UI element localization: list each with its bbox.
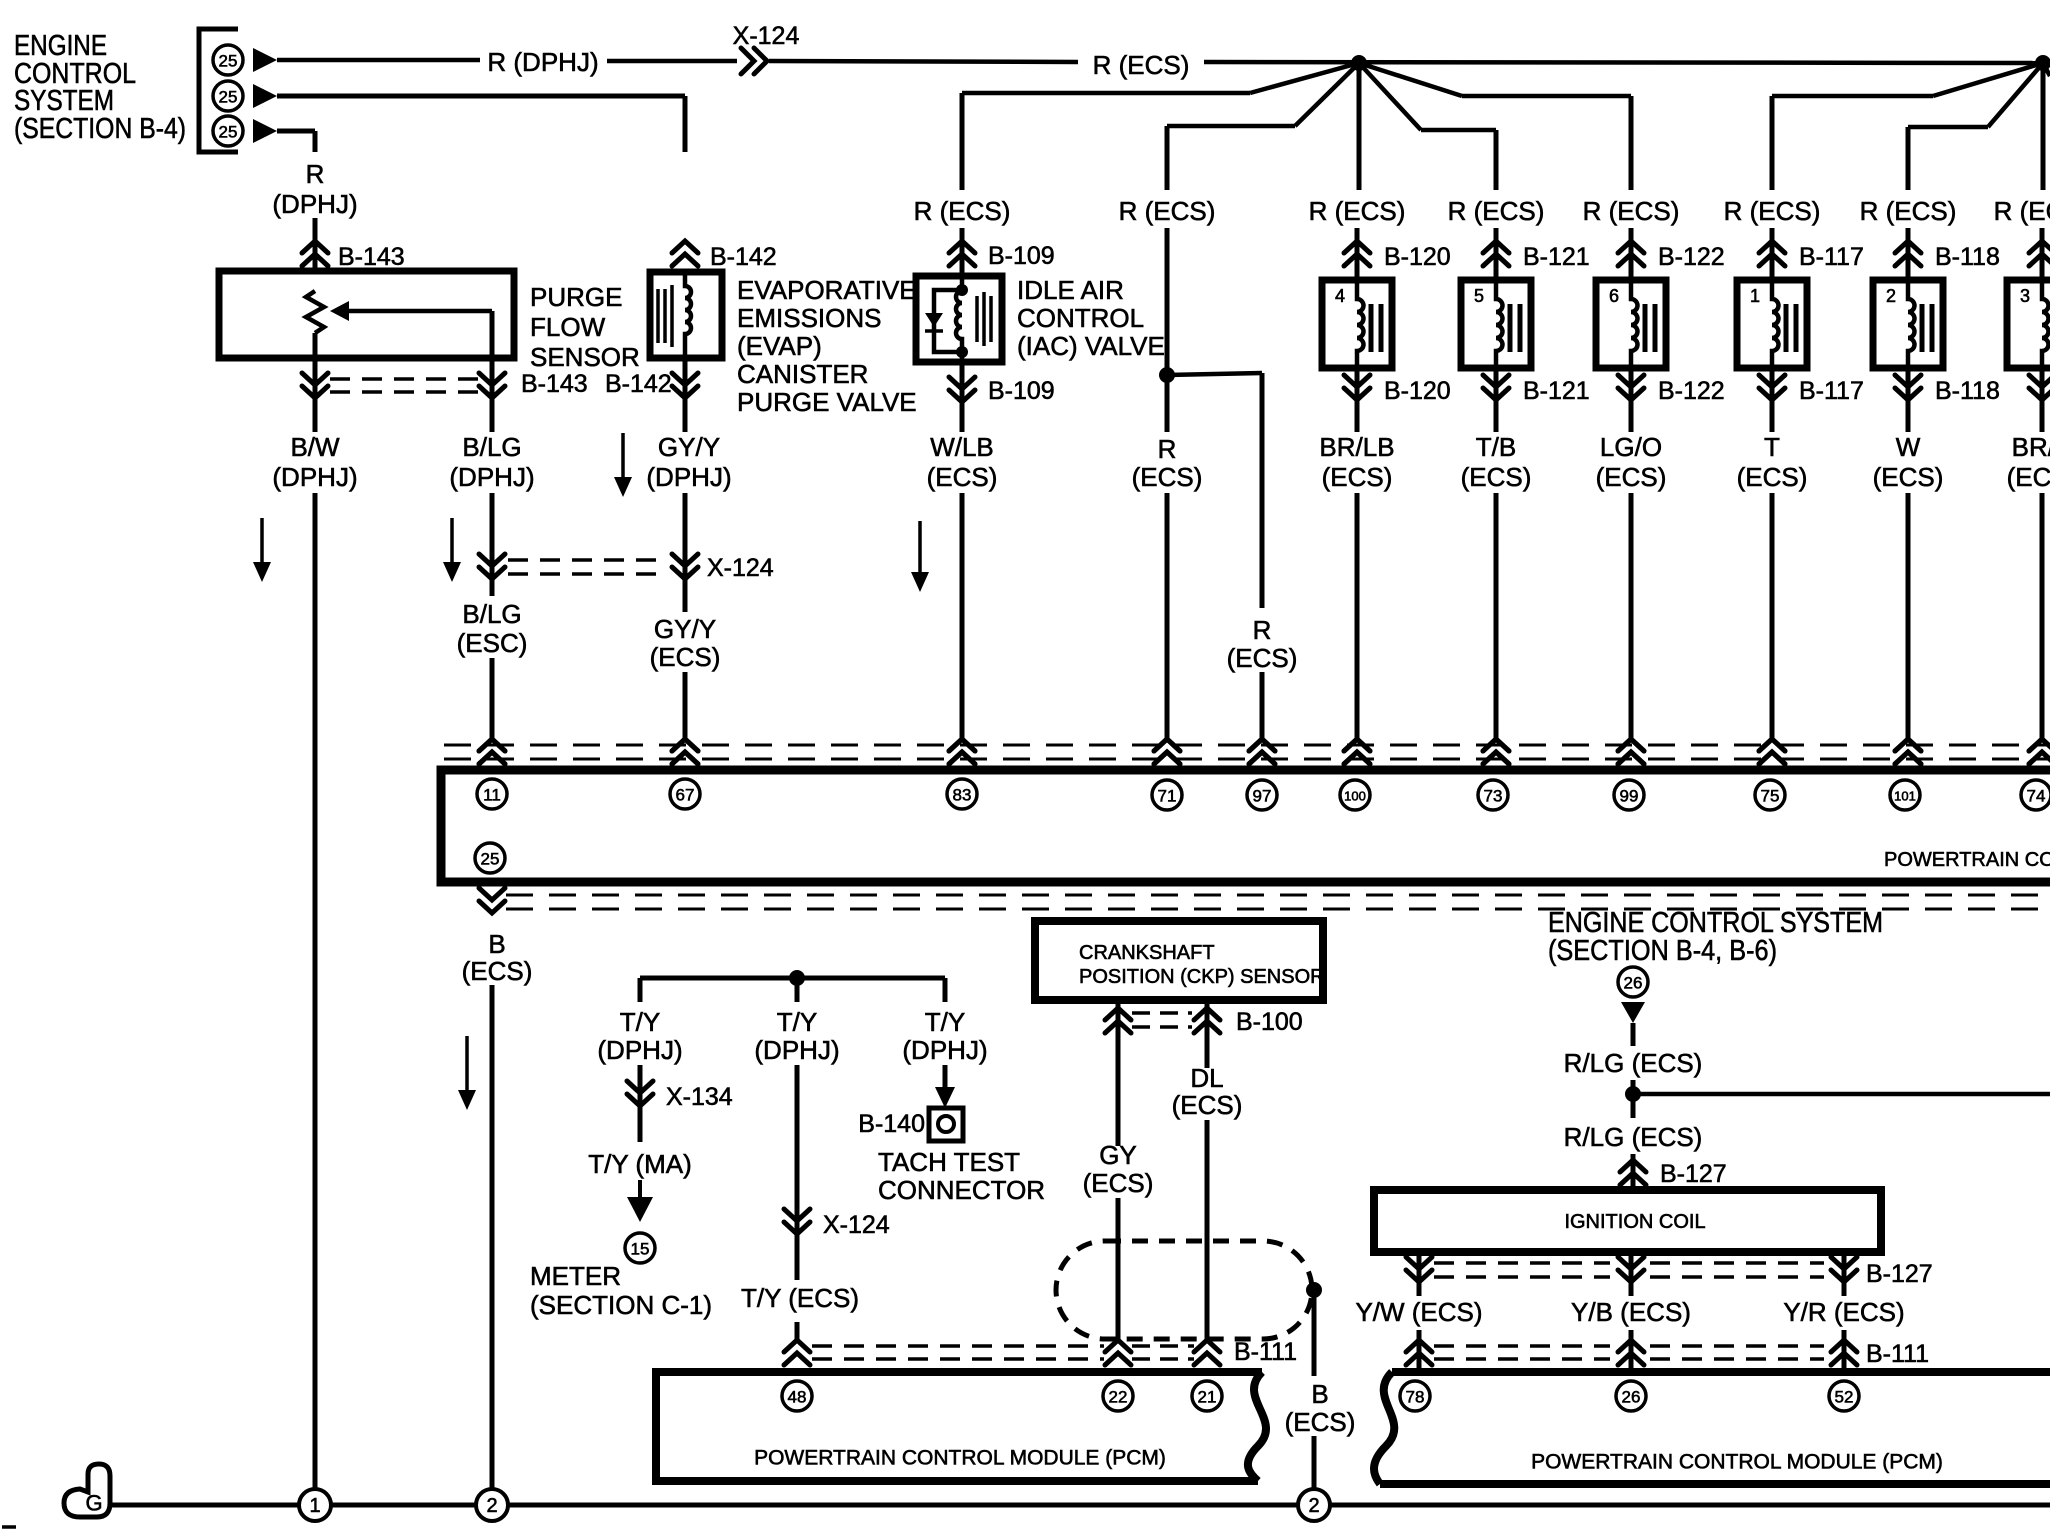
svg-text:(ECS): (ECS)	[1596, 462, 1667, 492]
svg-text:(DPHJ): (DPHJ)	[272, 189, 357, 219]
svg-text:Y/W (ECS): Y/W (ECS)	[1355, 1297, 1482, 1327]
svg-text:EMISSIONS: EMISSIONS	[737, 303, 881, 333]
svg-text:Y/B (ECS): Y/B (ECS)	[1571, 1297, 1691, 1327]
svg-text:G: G	[85, 1491, 102, 1516]
svg-text:T/Y (MA): T/Y (MA)	[588, 1149, 692, 1179]
svg-text:71: 71	[1158, 787, 1177, 806]
svg-text:B-111: B-111	[1866, 1340, 1929, 1368]
svg-text:6: 6	[1609, 286, 1619, 306]
svg-text:(ECS): (ECS)	[1873, 462, 1944, 492]
svg-text:(ECS): (ECS)	[1132, 462, 1203, 492]
svg-text:26: 26	[1624, 974, 1643, 993]
svg-text:(ECS): (ECS)	[2007, 462, 2050, 492]
svg-text:T/Y (ECS): T/Y (ECS)	[741, 1283, 859, 1313]
svg-text:CONTROL: CONTROL	[1017, 303, 1144, 333]
svg-text:B-109: B-109	[988, 377, 1055, 405]
svg-text:BR/LB: BR/LB	[1319, 432, 1394, 462]
svg-text:R (ECS): R (ECS)	[1994, 196, 2050, 226]
svg-text:15: 15	[631, 1240, 650, 1259]
svg-text:(DPHJ): (DPHJ)	[754, 1035, 839, 1065]
svg-text:1: 1	[309, 1495, 320, 1517]
svg-text:GY: GY	[1099, 1140, 1137, 1170]
svg-text:R (ECS): R (ECS)	[1119, 196, 1216, 226]
svg-text:99: 99	[1620, 787, 1639, 806]
svg-text:B-127: B-127	[1866, 1260, 1933, 1288]
svg-text:EVAPORATIVE: EVAPORATIVE	[737, 275, 917, 305]
svg-text:(ESC): (ESC)	[457, 628, 528, 658]
svg-text:PURGE VALVE: PURGE VALVE	[737, 387, 917, 417]
svg-text:(ECS): (ECS)	[1227, 643, 1298, 673]
svg-text:B-143: B-143	[338, 243, 405, 271]
svg-text:POWERTRAIN CONTROL MODULE (PCM: POWERTRAIN CONTROL MODULE (PCM)	[1531, 1451, 1943, 1474]
svg-text:R: R	[306, 159, 325, 189]
svg-text:1: 1	[1750, 286, 1760, 306]
svg-text:(DPHJ): (DPHJ)	[449, 462, 534, 492]
svg-text:POSITION (CKP) SENSOR: POSITION (CKP) SENSOR	[1079, 966, 1325, 988]
svg-text:B-111: B-111	[1234, 1338, 1297, 1366]
svg-text:R (ECS): R (ECS)	[1860, 196, 1957, 226]
svg-text:TACH TEST: TACH TEST	[878, 1147, 1020, 1177]
svg-text:22: 22	[1109, 1388, 1128, 1407]
svg-text:SENSOR: SENSOR	[530, 342, 640, 372]
svg-text:R/LG (ECS): R/LG (ECS)	[1564, 1122, 1703, 1152]
svg-text:B/LG: B/LG	[462, 432, 521, 462]
svg-text:B-120: B-120	[1384, 243, 1451, 271]
svg-text:X-124: X-124	[823, 1211, 890, 1239]
svg-text:67: 67	[676, 786, 695, 805]
svg-text:GY/Y: GY/Y	[654, 614, 716, 644]
svg-text:B-142: B-142	[605, 370, 672, 398]
svg-text:X-124: X-124	[707, 554, 774, 582]
svg-text:B-120: B-120	[1384, 377, 1451, 405]
svg-text:R (DPHJ): R (DPHJ)	[487, 47, 598, 77]
svg-text:(EVAP): (EVAP)	[737, 331, 822, 361]
svg-text:DL: DL	[1190, 1063, 1223, 1093]
svg-text:FLOW: FLOW	[530, 312, 606, 342]
svg-text:(SECTION C-1): (SECTION C-1)	[530, 1290, 712, 1320]
svg-text:(DPHJ): (DPHJ)	[597, 1035, 682, 1065]
svg-text:78: 78	[1406, 1388, 1425, 1407]
svg-text:2: 2	[486, 1495, 497, 1517]
svg-text:25: 25	[219, 88, 238, 107]
svg-text:R: R	[1158, 434, 1177, 464]
svg-text:METER: METER	[530, 1261, 621, 1291]
svg-text:B: B	[1311, 1379, 1328, 1409]
svg-text:2: 2	[1308, 1495, 1319, 1517]
svg-text:100: 100	[1344, 789, 1366, 804]
svg-text:R (ECS): R (ECS)	[1583, 196, 1680, 226]
svg-text:26: 26	[1622, 1388, 1641, 1407]
svg-text:(IAC) VALVE: (IAC) VALVE	[1017, 331, 1165, 361]
svg-text:(DPHJ): (DPHJ)	[272, 462, 357, 492]
svg-text:52: 52	[1835, 1388, 1854, 1407]
svg-text:25: 25	[219, 52, 238, 71]
svg-text:B-118: B-118	[1935, 377, 2000, 405]
svg-text:(ECS): (ECS)	[927, 462, 998, 492]
svg-text:CRANKSHAFT: CRANKSHAFT	[1079, 942, 1215, 964]
svg-text:X-134: X-134	[666, 1083, 733, 1111]
svg-text:4: 4	[1335, 286, 1345, 306]
svg-text:PURGE: PURGE	[530, 282, 622, 312]
svg-text:B-121: B-121	[1523, 377, 1590, 405]
svg-text:T/Y: T/Y	[925, 1007, 965, 1037]
svg-text:101: 101	[1894, 789, 1916, 804]
svg-text:(SECTION B-4): (SECTION B-4)	[14, 113, 186, 145]
svg-text:CANISTER: CANISTER	[737, 359, 868, 389]
svg-text:B-117: B-117	[1799, 377, 1864, 405]
svg-text:R (ECS): R (ECS)	[914, 196, 1011, 226]
svg-text:B-140: B-140	[858, 1110, 925, 1138]
svg-text:R (ECS): R (ECS)	[1093, 50, 1190, 80]
svg-text:5: 5	[1474, 286, 1484, 306]
svg-text:B-117: B-117	[1799, 243, 1864, 271]
svg-text:(ECS): (ECS)	[650, 642, 721, 672]
svg-text:CONNECTOR: CONNECTOR	[878, 1175, 1045, 1205]
svg-text:B-143: B-143	[521, 370, 588, 398]
svg-text:B-109: B-109	[988, 242, 1055, 270]
svg-text:97: 97	[1253, 787, 1272, 806]
svg-text:LG/O: LG/O	[1600, 432, 1662, 462]
svg-text:74: 74	[2027, 787, 2046, 806]
svg-text:T: T	[1764, 432, 1780, 462]
svg-text:2: 2	[1886, 286, 1896, 306]
svg-text:T/Y: T/Y	[620, 1007, 660, 1037]
svg-text:83: 83	[953, 786, 972, 805]
svg-text:(DPHJ): (DPHJ)	[902, 1035, 987, 1065]
svg-text:73: 73	[1484, 787, 1503, 806]
svg-text:(ECS): (ECS)	[1737, 462, 1808, 492]
svg-text:T/B: T/B	[1476, 432, 1516, 462]
svg-text:B-122: B-122	[1658, 243, 1725, 271]
svg-text:IGNITION COIL: IGNITION COIL	[1564, 1211, 1705, 1233]
svg-text:3: 3	[2020, 286, 2030, 306]
svg-text:R/LG (ECS): R/LG (ECS)	[1564, 1048, 1703, 1078]
svg-text:POWERTRAIN CONTROL MODULE (PCM: POWERTRAIN CONTROL MODULE (PCM)	[1884, 849, 2050, 871]
svg-text:W/LB: W/LB	[930, 432, 994, 462]
svg-text:R: R	[1253, 615, 1272, 645]
svg-text:(SECTION B-4, B-6): (SECTION B-4, B-6)	[1548, 935, 1777, 967]
svg-text:GY/Y: GY/Y	[658, 432, 720, 462]
svg-text:B/W: B/W	[290, 432, 340, 462]
svg-text:B-142: B-142	[710, 243, 777, 271]
svg-text:(ECS): (ECS)	[1322, 462, 1393, 492]
svg-text:Y/R (ECS): Y/R (ECS)	[1783, 1297, 1904, 1327]
svg-text:25: 25	[219, 123, 238, 142]
svg-text:POWERTRAIN CONTROL MODULE (PCM: POWERTRAIN CONTROL MODULE (PCM)	[754, 1447, 1166, 1470]
svg-text:B-100: B-100	[1236, 1008, 1303, 1036]
svg-text:B-122: B-122	[1658, 377, 1725, 405]
svg-text:B-127: B-127	[1660, 1160, 1727, 1188]
svg-text:T/Y: T/Y	[777, 1007, 817, 1037]
svg-text:X-124: X-124	[733, 22, 800, 50]
svg-text:BR/Y: BR/Y	[2012, 432, 2050, 462]
svg-text:75: 75	[1761, 787, 1780, 806]
svg-text:(ECS): (ECS)	[1285, 1407, 1356, 1437]
svg-text:B-118: B-118	[1935, 243, 2000, 271]
svg-text:R (ECS): R (ECS)	[1309, 196, 1406, 226]
svg-text:R (ECS): R (ECS)	[1448, 196, 1545, 226]
svg-text:11: 11	[483, 786, 501, 805]
svg-text:(DPHJ): (DPHJ)	[646, 462, 731, 492]
svg-text:IDLE AIR: IDLE AIR	[1017, 275, 1124, 305]
svg-text:(ECS): (ECS)	[462, 956, 533, 986]
svg-text:W: W	[1896, 432, 1921, 462]
svg-text:21: 21	[1198, 1388, 1217, 1407]
svg-text:25: 25	[481, 850, 500, 869]
svg-text:B/LG: B/LG	[462, 599, 521, 629]
svg-text:48: 48	[788, 1388, 807, 1407]
svg-text:(ECS): (ECS)	[1172, 1090, 1243, 1120]
svg-text:B: B	[488, 929, 505, 959]
svg-text:B-121: B-121	[1523, 243, 1590, 271]
svg-text:R (ECS): R (ECS)	[1724, 196, 1821, 226]
svg-text:(ECS): (ECS)	[1083, 1168, 1154, 1198]
svg-text:(ECS): (ECS)	[1461, 462, 1532, 492]
